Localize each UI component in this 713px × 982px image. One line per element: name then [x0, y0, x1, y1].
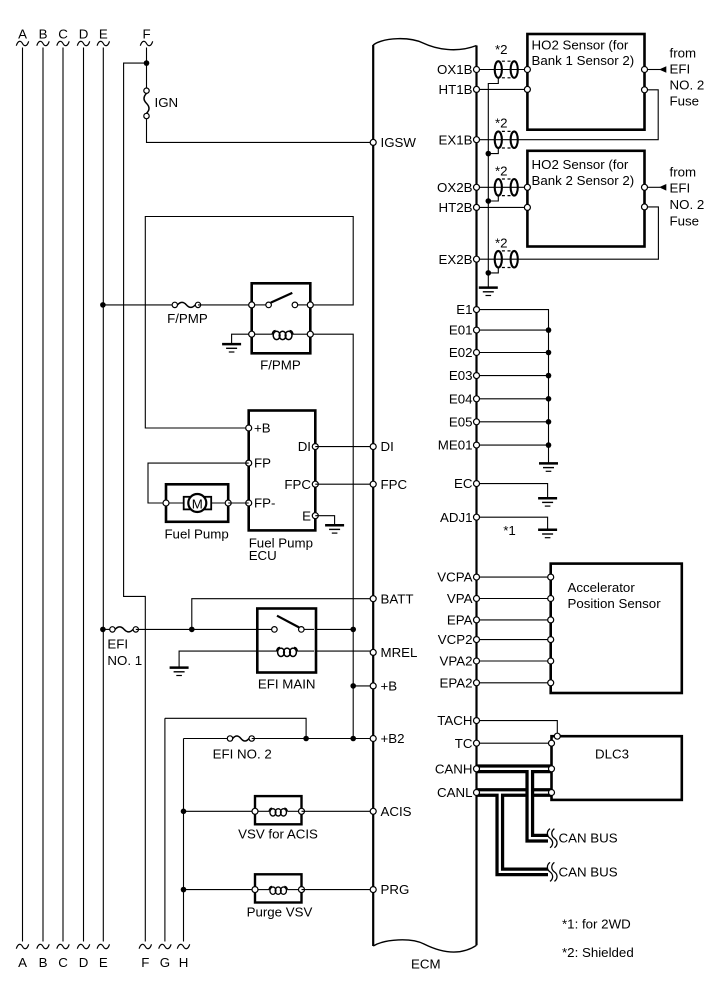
node junction E line / F-PMP fuse [100, 302, 106, 308]
fuse IGN [144, 88, 149, 119]
fuel pump ECU name label [249, 536, 313, 564]
wire H to purge VSV [184, 889, 256, 891]
fuse F/PMP [172, 302, 201, 307]
wire F/PMP fuse to relay contact [198, 304, 252, 306]
ground (fuel pump ECU E) [325, 525, 344, 533]
wire break squiggle F bottom [139, 944, 151, 948]
pin CANH [474, 766, 480, 772]
pin E01 [474, 327, 480, 333]
relay EFI MAIN [257, 609, 316, 673]
wire VCPA [477, 576, 551, 578]
node junction on line F [144, 60, 150, 66]
wire break squiggle C top [57, 41, 69, 45]
svg-text:+B2: +B2 [381, 731, 405, 746]
node junction G branch / +B2 [303, 736, 309, 742]
shielded cable symbol EX2B [495, 236, 518, 268]
svg-text:CANL: CANL [437, 785, 472, 800]
wire break squiggle B top [37, 41, 49, 45]
node junction E line / EFI NO.1 fuse [100, 627, 106, 633]
svg-text:Fuel Pump: Fuel Pump [164, 526, 228, 541]
wire CANH white core [477, 768, 551, 770]
node junction shield EX2B [486, 270, 492, 276]
wire VPA2 [477, 660, 551, 662]
svg-text:DI: DI [381, 439, 394, 454]
svg-text:EX1B: EX1B [438, 132, 472, 147]
svg-text:F/PMP: F/PMP [167, 311, 208, 326]
wire HT2B to HO2 sensor 2 [477, 206, 528, 208]
ground (F/PMP relay coil) [222, 344, 241, 352]
wire EX2B shield return [477, 207, 659, 259]
wire OX1B to HO2 sensor 1 [477, 69, 528, 71]
svg-text:HT1B: HT1B [439, 82, 473, 97]
pin FPC of fuel pump ECU [312, 481, 318, 487]
svg-text:ME01: ME01 [438, 438, 473, 453]
from EFI NO.2 Fuse label (sensor 1) [670, 45, 705, 108]
wire break squiggle D bottom [77, 944, 89, 948]
svg-text:D: D [79, 955, 89, 970]
pin FP of fuel pump ECU [246, 460, 252, 466]
from EFI NO.2 Fuse label (sensor 2) [670, 164, 705, 228]
node junction H / PRG [181, 887, 187, 893]
svg-text:Fuse: Fuse [670, 213, 700, 228]
svg-text:ECM: ECM [411, 957, 441, 972]
wire break squiggle D top [77, 41, 89, 45]
pin TC [474, 740, 480, 746]
svg-text:Bank 2 Sensor 2): Bank 2 Sensor 2) [532, 173, 635, 188]
CAN bus CANL wire [477, 788, 551, 797]
pin OX2B [474, 184, 480, 190]
pin ME01 [474, 442, 480, 448]
wire EPA [477, 619, 551, 621]
relay F/PMP [249, 283, 314, 353]
svg-text:MREL: MREL [381, 645, 418, 660]
wire bus line D [83, 48, 85, 942]
CAN bus stub 2 [500, 793, 548, 872]
wire E line to F/PMP fuse [103, 304, 175, 306]
wire arrow from EFI NO.2 fuse (sensor 1) [648, 66, 667, 73]
solenoid VSV for ACIS [252, 796, 305, 824]
wire E03 [477, 375, 549, 377]
node junction E03 [546, 373, 552, 379]
CAN bus stub 2 white core [500, 793, 548, 872]
pin E03 [474, 373, 480, 379]
wire arrow from EFI NO.2 fuse (sensor 2) [648, 184, 667, 191]
wire OX2B shield branch [488, 196, 498, 201]
svg-text:EPA2: EPA2 [439, 675, 472, 690]
svg-text:EC: EC [454, 476, 473, 491]
svg-text:VSV for ACIS: VSV for ACIS [238, 827, 318, 842]
svg-text:B: B [39, 955, 48, 970]
DLC3 box [549, 733, 682, 800]
wire +B to ECM [353, 685, 373, 687]
pin +B of fuel pump ECU [246, 425, 252, 431]
wire EFI MAIN coil to ground [179, 651, 259, 668]
svg-text:F: F [141, 955, 149, 970]
node junction ME01 [546, 442, 552, 448]
svg-text:D: D [79, 27, 89, 42]
pin IGSW [370, 139, 376, 145]
pin DI [370, 444, 376, 450]
svg-text:NO. 2: NO. 2 [670, 197, 705, 212]
fuel pump box [166, 484, 228, 522]
svg-text:CAN BUS: CAN BUS [559, 830, 618, 845]
svg-text:OX1B: OX1B [437, 62, 473, 77]
ground (EC) [538, 498, 557, 506]
svg-text:*2: *2 [495, 236, 508, 251]
pin EX2B [474, 256, 480, 262]
wire E line to EFI NO.1 fuse [103, 628, 113, 630]
wire EC to ground [477, 484, 548, 499]
svg-text:PRG: PRG [381, 882, 410, 897]
node junction E05 [546, 419, 552, 425]
wire break squiggle H bottom [177, 944, 189, 948]
pin E05 [474, 419, 480, 425]
svg-text:from: from [670, 164, 697, 179]
svg-text:E1: E1 [456, 302, 472, 317]
pin FP- of fuel pump ECU [246, 500, 252, 506]
svg-text:FPC: FPC [381, 477, 408, 492]
svg-text:E02: E02 [449, 345, 473, 360]
pin E1 [474, 307, 480, 313]
motor M1 fuel pump motor [166, 494, 228, 512]
wire bus line A [22, 48, 24, 942]
wire VPA [477, 598, 551, 600]
wire MREL from coil to ECM [317, 650, 374, 652]
svg-text:EFI: EFI [107, 637, 128, 652]
wire EPA2 [477, 682, 551, 684]
wire line F top to IGN fuse [146, 48, 148, 89]
pin EC [474, 481, 480, 487]
wire break squiggle F top [140, 41, 152, 45]
pin +B2 [370, 736, 376, 742]
pin HT1B [474, 86, 480, 92]
wire EFI MAIN contact output to +B net [317, 628, 354, 630]
wire E04 [477, 398, 549, 400]
wire break squiggle G bottom [159, 944, 171, 948]
svg-text:TACH: TACH [437, 713, 472, 728]
node junction shield EX1B [486, 151, 492, 157]
pin OX1B [474, 67, 480, 73]
pin TACH [474, 718, 480, 724]
svg-text:E: E [99, 955, 108, 970]
svg-text:*2: *2 [495, 42, 508, 57]
svg-text:EFI: EFI [670, 61, 691, 76]
wire E01 [477, 329, 549, 331]
pin E02 [474, 350, 480, 356]
pin E04 [474, 396, 480, 402]
svg-text:*1: for 2WD: *1: for 2WD [562, 916, 631, 931]
wire EX1B shield return [477, 90, 659, 140]
wire break squiggle B bottom [37, 944, 49, 948]
svg-text:Fuse: Fuse [670, 93, 700, 108]
svg-text:VPA2: VPA2 [439, 654, 472, 669]
svg-text:CANH: CANH [435, 761, 473, 776]
HO2 sensor U2 (Bank 2 Sensor 2) [524, 151, 647, 247]
svg-text:*2: Shielded: *2: Shielded [562, 945, 634, 960]
svg-text:BATT: BATT [381, 591, 414, 606]
svg-text:*1: *1 [503, 523, 516, 538]
svg-text:+B: +B [254, 421, 271, 436]
wire line H [183, 739, 185, 942]
pin EPA2 [474, 680, 480, 686]
wire break symbol CAN BUS 2 [547, 862, 557, 881]
svg-text:EFI NO. 2: EFI NO. 2 [213, 747, 272, 762]
wire E to ground [315, 516, 334, 525]
CAN bus stub 1 [530, 769, 548, 838]
svg-text:HO2 Sensor (for: HO2 Sensor (for [532, 37, 629, 52]
wire FPC to ECM [315, 483, 373, 485]
pin VCP2 [474, 637, 480, 643]
svg-text:*2: *2 [495, 163, 508, 178]
ground (EFI MAIN coil) [170, 668, 189, 676]
wire EFI NO.2 fuse to ECM +B2 [252, 738, 374, 740]
pin HT2B [474, 204, 480, 210]
shielded cable symbol OX2B [495, 163, 518, 195]
wire TC to DLC3 [477, 742, 552, 744]
svg-text:E01: E01 [449, 323, 473, 338]
node junction +B [350, 683, 356, 689]
svg-text:DI: DI [298, 439, 311, 454]
wire E05 [477, 421, 549, 423]
wire TACH to DLC3 [477, 721, 558, 737]
wire E1 to ground bus [477, 310, 549, 464]
shielded cable symbol OX1B [495, 42, 518, 78]
node junction +B net / +B2 [350, 736, 356, 742]
svg-text:VCP2: VCP2 [438, 632, 473, 647]
wire EFI NO.1 fuse to EFI MAIN relay [136, 628, 275, 630]
svg-text:E: E [99, 27, 108, 42]
fuel pump ECU box [249, 411, 316, 531]
wire bus line C [62, 48, 64, 942]
wire F/PMP coil to +B net vertical [313, 334, 353, 738]
svg-text:F: F [142, 27, 150, 42]
svg-text:EFI: EFI [670, 180, 691, 195]
svg-text:Bank 1 Sensor 2): Bank 1 Sensor 2) [532, 53, 635, 68]
node junction BATT tap [189, 627, 195, 633]
pin VPA [474, 596, 480, 602]
svg-text:E: E [302, 508, 311, 523]
fuel pump ECU labels [254, 421, 311, 524]
pin MREL [370, 649, 376, 655]
svg-text:NO. 1: NO. 1 [107, 653, 142, 668]
wire CANL white core [477, 791, 551, 793]
svg-text:CAN BUS: CAN BUS [559, 864, 618, 879]
wire EX2B shield branch [488, 268, 498, 273]
solenoid purge VSV [252, 874, 305, 902]
shielded cable symbol EX1B [495, 116, 518, 148]
pin fuel pump left [163, 500, 169, 506]
wire F/PMP coil to ground [232, 334, 249, 344]
wire EX1B shield branch [488, 148, 498, 154]
svg-text:A: A [18, 955, 27, 970]
CAN bus CANH wire [477, 764, 551, 773]
wire VCP2 [477, 639, 551, 641]
node junction E04 [546, 396, 552, 402]
pin BATT [370, 596, 376, 602]
wire FP to fuel pump [148, 463, 249, 503]
wire break squiggle E top [97, 41, 109, 45]
node junction E01 [546, 327, 552, 333]
wire BATT from ECM [192, 599, 373, 630]
wire ME01 [477, 444, 549, 446]
svg-text:OX2B: OX2B [437, 180, 473, 195]
wire bus line E [102, 48, 104, 942]
pin VCPA [474, 574, 480, 580]
pin PRG [370, 887, 376, 893]
svg-text:NO. 2: NO. 2 [670, 77, 705, 92]
ground (ADJ1) [538, 530, 557, 538]
svg-text:*2: *2 [495, 116, 508, 131]
node junction E02 [546, 350, 552, 356]
svg-text:FP: FP [254, 456, 271, 471]
wire break squiggle C bottom [57, 944, 69, 948]
HO2 sensor U1 (Bank 1 Sensor 2) [524, 34, 647, 130]
wire line G [164, 718, 166, 941]
wire ADJ1 to ground [477, 517, 548, 530]
svg-text:DLC3: DLC3 [595, 747, 629, 762]
svg-text:E05: E05 [449, 414, 473, 429]
svg-text:C: C [58, 27, 68, 42]
wire IGN fuse to IGSW pin [147, 119, 374, 143]
svg-text:E03: E03 [449, 368, 473, 383]
pin CANL [474, 790, 480, 796]
node junction H / ACIS [181, 809, 187, 815]
pin E of fuel pump ECU [312, 513, 318, 519]
svg-text:E04: E04 [449, 391, 473, 406]
svg-text:FP-: FP- [254, 496, 275, 511]
svg-text:VCPA: VCPA [437, 570, 472, 585]
wire DI to ECM [315, 446, 373, 448]
svg-text:IGN: IGN [155, 95, 179, 110]
svg-text:HO2 Sensor (for: HO2 Sensor (for [532, 157, 629, 172]
svg-text:+B: +B [381, 679, 398, 694]
svg-text:VPA: VPA [447, 591, 473, 606]
svg-text:from: from [670, 45, 697, 60]
pin fuel pump right [225, 500, 231, 506]
svg-text:F/PMP: F/PMP [260, 358, 301, 373]
wire bus line B [42, 48, 44, 942]
svg-text:TC: TC [455, 736, 473, 751]
svg-text:EX2B: EX2B [438, 252, 472, 267]
svg-text:EPA: EPA [447, 613, 473, 628]
wire OX2B to HO2 sensor 2 [477, 186, 528, 188]
wire fuel pump to FP- [228, 502, 249, 504]
svg-text:ACIS: ACIS [381, 804, 412, 819]
svg-text:EFI MAIN: EFI MAIN [258, 676, 316, 691]
wire break squiggle E bottom [97, 944, 109, 948]
wire E02 [477, 352, 549, 354]
wire break squiggle A bottom [16, 944, 28, 948]
svg-text:Purge VSV: Purge VSV [247, 905, 313, 920]
wire break symbol CAN BUS 1 [547, 829, 557, 848]
svg-text:M: M [192, 496, 203, 511]
wire shield drain chain [488, 78, 498, 288]
ground (sensor shields) [479, 288, 498, 296]
pin EX1B [474, 137, 480, 143]
node junction contact / +B net [350, 627, 356, 633]
fuse EFI NO.2 [227, 736, 254, 741]
pin ACIS [370, 808, 376, 814]
pin VPA2 [474, 658, 480, 664]
pin FPC [370, 481, 376, 487]
pin +B [370, 683, 376, 689]
pin ADJ1 [474, 514, 480, 520]
wire branch from F down left side [124, 63, 147, 941]
wire purge VSV to ECM [302, 889, 374, 891]
pin EPA [474, 617, 480, 623]
svg-text:Accelerator: Accelerator [568, 580, 636, 595]
svg-text:Position Sensor: Position Sensor [568, 596, 662, 611]
wire F/PMP relay contact output loop to +B [145, 217, 353, 429]
accelerator position sensor box [548, 564, 682, 693]
wire break squiggle A top [16, 41, 28, 45]
wire H line corner to EFI NO.2 fuse [184, 738, 231, 740]
EFI NO.1 fuse label [107, 637, 142, 668]
ground (E1 chain) [539, 463, 558, 471]
ECM box (torn top and bottom edges) [373, 39, 476, 952]
pin DI of fuel pump ECU [312, 444, 318, 450]
CAN bus stub 1 white core [530, 769, 548, 838]
svg-text:A: A [18, 27, 27, 42]
svg-text:G: G [160, 955, 170, 970]
wire VSV ACIS to ECM [302, 810, 374, 812]
svg-text:IGSW: IGSW [381, 135, 417, 150]
svg-text:ECU: ECU [249, 548, 277, 563]
svg-text:C: C [58, 955, 68, 970]
wire H to VSV for ACIS [184, 810, 256, 812]
svg-text:FPC: FPC [284, 477, 311, 492]
svg-text:ADJ1: ADJ1 [440, 510, 473, 525]
svg-text:H: H [179, 955, 189, 970]
svg-text:B: B [39, 27, 48, 42]
svg-text:HT2B: HT2B [439, 200, 473, 215]
node junction shield OX2B [486, 198, 492, 204]
fuse EFI NO.1 [110, 627, 139, 632]
wire HT1B to HO2 sensor 1 [477, 88, 528, 90]
wire branch G to +B2 node [165, 718, 306, 738]
